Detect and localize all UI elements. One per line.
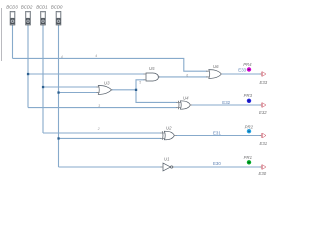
- wire BCD3 vertical: [12, 25, 14, 59]
- svg-text:U1: U1: [164, 157, 170, 162]
- wire BCD1 vertical: [42, 25, 44, 134]
- wire U2 output E31: [176, 135, 260, 137]
- wire BCD0 vertical: [58, 25, 60, 168]
- and-gate U5: [146, 73, 159, 81]
- LED PR1: [247, 160, 251, 164]
- port E31: [262, 133, 267, 138]
- svg-text:PR2: PR2: [245, 124, 254, 129]
- port E33: [262, 72, 267, 77]
- port E32: [262, 103, 267, 108]
- wire U5 output net 6: [159, 76, 208, 78]
- svg-text:BCD3: BCD3: [6, 4, 18, 9]
- svg-text:E33: E33: [260, 80, 268, 85]
- svg-text:PR4: PR4: [243, 62, 252, 67]
- wire BCD0 to U3 input B: [59, 92, 98, 94]
- pin stubs gray: [97, 71, 262, 167]
- wire BCD1 to U3 input A: [43, 86, 98, 88]
- wire net4 rail: [13, 58, 208, 71]
- switch BCD0: [56, 11, 61, 25]
- switch BCD3: [10, 11, 15, 25]
- svg-text:E31: E31: [260, 141, 268, 146]
- xor-gate U4 body: [180, 101, 190, 109]
- wire BCD1 to U2 input A: [43, 132, 161, 134]
- svg-text:2: 2: [97, 127, 100, 131]
- svg-text:5: 5: [139, 80, 141, 84]
- svg-text:6: 6: [186, 73, 188, 77]
- not-gate U1 triangle: [163, 163, 171, 171]
- LED PR3: [247, 99, 251, 103]
- svg-text:PR1: PR1: [244, 155, 253, 160]
- gates: [98, 70, 221, 171]
- junction BCD0/U3: [57, 91, 59, 93]
- svg-text:E32: E32: [222, 100, 230, 105]
- wire U1 output E30: [173, 166, 261, 168]
- LED PR2: [247, 129, 251, 133]
- svg-text:U4: U4: [183, 95, 189, 100]
- svg-text:PR3: PR3: [244, 93, 253, 98]
- svg-text:E31: E31: [213, 130, 221, 135]
- junction BCD2/U5: [27, 73, 29, 75]
- wire BCD2 vertical: [27, 25, 29, 75]
- svg-text:E30: E30: [213, 161, 221, 166]
- wire BCD2 continue down: [27, 74, 29, 108]
- wire junction up to U5 input B: [136, 80, 145, 90]
- xor-gate U2 back arc: [161, 131, 164, 140]
- svg-text:U2: U2: [166, 126, 172, 131]
- port E30: [262, 165, 267, 170]
- svg-text:3: 3: [98, 104, 100, 108]
- wire junction down to U4 input A: [136, 90, 177, 103]
- wire BCD2 to U5 input A: [28, 73, 145, 75]
- or-gate U3: [98, 86, 111, 95]
- junction BCD0/U2: [57, 137, 59, 139]
- wire BCD2 to U4 input B: [28, 107, 177, 109]
- wire U4 output E32: [192, 104, 261, 106]
- svg-text:4: 4: [95, 54, 97, 58]
- svg-text:E33: E33: [238, 68, 246, 73]
- xor-gate U2 body: [164, 131, 174, 140]
- svg-text:BCD2: BCD2: [21, 4, 33, 9]
- not-gate U1 bubble: [171, 166, 173, 168]
- svg-text:U3: U3: [104, 81, 110, 86]
- xor-gate U4 back arc: [177, 101, 180, 109]
- wire BCD0 to U1 input: [59, 166, 162, 168]
- svg-text:E32: E32: [259, 110, 267, 115]
- svg-text:4: 4: [61, 55, 63, 59]
- wire BCD0 to U2 input B: [59, 137, 162, 139]
- svg-text:U5: U5: [149, 66, 155, 71]
- svg-text:BCD0: BCD0: [51, 4, 63, 9]
- svg-text:U6: U6: [213, 64, 219, 69]
- wire U3 output net 5: [112, 89, 137, 91]
- switch BCD2: [26, 11, 31, 25]
- or-gate U6: [209, 70, 221, 79]
- svg-text:E30: E30: [259, 171, 267, 176]
- junction U3 output node 5: [135, 89, 137, 91]
- switch BCD1: [41, 11, 46, 25]
- sheet border fragment: [1, 8, 3, 61]
- junction BCD1/U3: [42, 86, 44, 88]
- LED PR4: [247, 67, 251, 71]
- svg-text:BCD1: BCD1: [36, 4, 48, 9]
- wire U6 output E33: [221, 73, 260, 75]
